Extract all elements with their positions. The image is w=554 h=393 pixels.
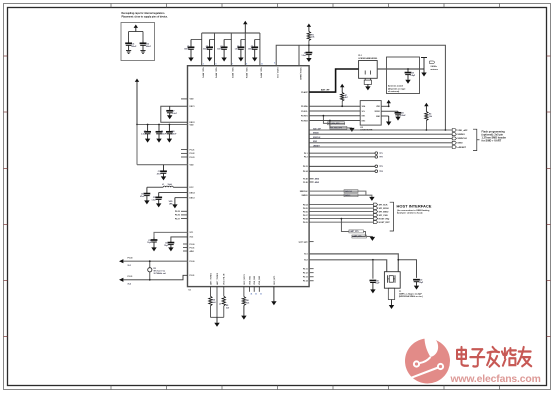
wire U3 GND (381, 115, 389, 117)
capacitor C5 (255, 39, 260, 41)
power arrow below C16 (153, 247, 155, 249)
wire UART RTS CTS (341, 219, 349, 232)
pin stubs XL (183, 243, 188, 245)
wire branch to IC pin (298, 45, 300, 65)
svg-text:VDD_NRF2: VDD_NRF2 (214, 68, 216, 79)
svg-text:100nF: 100nF (203, 49, 209, 51)
svg-text:TP3: TP3 (379, 166, 382, 168)
IC U3 body (360, 101, 381, 126)
svg-text:VDDIO: VDDIO (374, 111, 380, 113)
power arrow below C20 (416, 285, 418, 287)
power arrow NFC (216, 317, 218, 323)
svg-text:100nF: 100nF (217, 49, 223, 51)
svg-text:P0.07: P0.07 (303, 215, 308, 217)
capacitor C6 (308, 45, 310, 52)
svg-text:Antenna match: Antenna match (388, 85, 404, 88)
svg-text:P0.12: P0.12 (303, 272, 308, 274)
svg-text:P0.22: P0.22 (190, 153, 195, 155)
svg-text:100nF: 100nF (400, 115, 406, 117)
wire I2C label detour (323, 116, 345, 124)
net flag VDD_nRF (452, 129, 456, 132)
power VDD arrow top (243, 21, 247, 24)
svg-text:VDD_nRF: VDD_nRF (457, 130, 468, 132)
wire RF to antenna (377, 68, 424, 70)
power arrow below C3 (223, 57, 225, 59)
IC U1 nRF52832 body (188, 66, 310, 287)
svg-text:VDD_NRF3: VDD_NRF3 (231, 68, 233, 79)
capacitor C13 (163, 165, 165, 172)
capacitor C8 (147, 124, 149, 126)
svg-text:Placement: close to supply pin: Placement: close to supply pins of devic… (122, 15, 169, 18)
pin stubs AIN (309, 178, 314, 180)
net flag antenna (430, 61, 436, 64)
power arrow DEC6 (273, 287, 275, 302)
svg-text:SPI_CSN: SPI_CSN (379, 215, 388, 217)
svg-text:SPI_MOSI: SPI_MOSI (379, 208, 389, 210)
svg-text:XC2: XC2 (304, 260, 308, 262)
svg-text:INT1: INT1 (362, 116, 366, 118)
resistor R7 (340, 84, 344, 87)
wire DEC3 (175, 197, 188, 199)
frame zone ticks left (4, 55, 8, 57)
power arrow below R6 (243, 305, 245, 315)
svg-text:nRESET: nRESET (313, 145, 321, 147)
bracket flash programming (473, 129, 477, 150)
svg-text:P0.23: P0.23 (303, 166, 308, 168)
net flag HOST_IRQ (373, 217, 377, 220)
svg-text:P0.21: P0.21 (190, 149, 195, 151)
power arrow below C6 (308, 57, 310, 59)
svg-text:P0.11: P0.11 (303, 268, 308, 270)
capacitor C14 (146, 187, 148, 193)
svg-text:100nF: 100nF (131, 46, 137, 48)
power arrow below Y1 (391, 300, 393, 306)
svg-text:P0.26: P0.26 (175, 215, 180, 217)
svg-text:3n9: 3n9 (226, 308, 229, 310)
wire XC2 (171, 237, 188, 241)
inductor L1 L2 (163, 186, 173, 187)
wire XL2 (123, 275, 187, 280)
net flag XL2 (119, 278, 123, 282)
pin stubs P0.25-27 (181, 210, 188, 212)
svg-text:www.elecfans.com: www.elecfans.com (450, 374, 541, 385)
svg-text:100nF: 100nF (146, 46, 152, 48)
capacitor C20 xtal (413, 279, 420, 281)
pin stub VDD (181, 98, 188, 100)
svg-text:SWDIO: SWDIO (345, 195, 351, 197)
power VDD arrow above R1 (307, 24, 311, 27)
svg-text:antenna: antenna (431, 68, 439, 71)
svg-text:P0.SDA: P0.SDA (301, 105, 308, 108)
capacitor C16 (153, 237, 155, 240)
resistor R4 (209, 287, 211, 297)
power arrow below C21 (397, 116, 399, 118)
svg-text:SWDCLK: SWDCLK (457, 138, 467, 140)
svg-text:Analyzer similar to host): Analyzer similar to host) (397, 212, 423, 215)
svg-text:VDDH_MAIN: VDDH_MAIN (299, 68, 302, 80)
svg-text:P0.09: P0.09 (303, 222, 308, 224)
svg-text:ANT_TUNE1: ANT_TUNE1 (209, 272, 212, 285)
wire join rail (210, 316, 223, 318)
resistor R6 (243, 287, 245, 297)
svg-text:100nF: 100nF (161, 134, 167, 136)
svg-text:LFB182G45BG2D280: LFB182G45BG2D280 (358, 57, 377, 60)
antenna match box (387, 57, 420, 94)
svg-text:P0.INT2: P0.INT2 (301, 120, 308, 122)
svg-text:HOST_RST: HOST_RST (379, 222, 391, 224)
power arrow below C17 (170, 247, 172, 249)
power VDD arrow U3 (387, 100, 391, 103)
svg-text:9: 9 (246, 64, 247, 66)
wire top supply bus (202, 32, 260, 34)
svg-text:INT2: INT2 (362, 120, 366, 122)
resistor R5 (223, 287, 225, 297)
svg-text:AIN5: AIN5 (315, 181, 319, 184)
svg-text:P0.00: P0.00 (128, 257, 133, 259)
svg-text:VDD_PA_IN: VDD_PA_IN (223, 273, 226, 285)
svg-text:SWDCLK: SWDCLK (300, 191, 309, 193)
svg-text:31: 31 (251, 293, 253, 295)
svg-text:5: 5 (216, 64, 217, 66)
svg-text:DEC3: DEC3 (190, 197, 195, 199)
power arrow U3 GND (388, 116, 390, 122)
svg-text:P0.13: P0.13 (303, 277, 308, 279)
pin stubs P0.21-23 (181, 149, 188, 151)
pin stubs VSS bottom (249, 287, 251, 292)
svg-text:spare gpio: spare gpio (299, 241, 309, 243)
svg-text:P0.28: P0.28 (303, 179, 307, 181)
svg-text:P0.1: P0.1 (304, 153, 308, 155)
svg-text:VDD_NRF5: VDD_NRF5 (260, 68, 262, 79)
wire SWDIO labelled (309, 195, 372, 197)
component SJ1 jumper circle (149, 261, 151, 268)
capacitor C9 (158, 124, 160, 126)
svg-text:UART_RTS: UART_RTS (350, 230, 360, 233)
ground C12 (140, 50, 145, 52)
svg-text:DVDD_1V3: DVDD_1V3 (276, 68, 278, 79)
svg-text:(NX2520SA 32MHz or sim.): (NX2520SA 32MHz or sim.) (399, 295, 423, 298)
svg-text:DEC_NFC1: DEC_NFC1 (244, 273, 246, 284)
svg-text:XL2: XL2 (128, 283, 131, 285)
svg-text:10k: 10k (429, 116, 432, 118)
svg-text:SPI_SCK: SPI_SCK (379, 204, 388, 206)
svg-text:31: 31 (260, 293, 262, 295)
svg-text:UART_CTS: UART_CTS (353, 235, 363, 238)
svg-text:P0.27: P0.27 (175, 218, 180, 220)
svg-text:TP2: TP2 (379, 157, 382, 159)
svg-text:P0.04: P0.04 (303, 203, 308, 206)
svg-text:P0.2: P0.2 (304, 157, 308, 159)
svg-text:2.4GHz: 2.4GHz (431, 65, 437, 68)
power arrow below C19 (372, 289, 374, 291)
svg-text:P0.INT1: P0.INT1 (301, 116, 308, 118)
svg-text:XL1: XL1 (128, 265, 131, 267)
wire DEC4 (159, 192, 188, 194)
capacitor C19 xtal (372, 259, 374, 261)
node VDD rail (136, 124, 138, 126)
svg-text:I2C_SDA_NFC: I2C_SDA_NFC (331, 127, 343, 130)
wire to load cap right (398, 260, 416, 278)
svg-text:TP1: TP1 (379, 153, 382, 155)
svg-text:P0.01: P0.01 (128, 276, 133, 278)
crystal Y1 symbol (387, 275, 389, 283)
frame zone ticks right (547, 55, 551, 57)
capacitor C3 (224, 39, 231, 41)
capacitor C4 (241, 39, 245, 41)
pin stubs right bottom (309, 268, 314, 270)
svg-text:DCC: DCC (190, 187, 195, 189)
svg-text:31: 31 (255, 293, 257, 295)
net flag SPI_SCK (373, 203, 377, 206)
svg-text:3: 3 (203, 64, 204, 66)
power arrow below C1 (190, 57, 192, 59)
net flag nRESET (452, 146, 456, 149)
svg-text:(for connection to USB floatin: (for connection to USB floating (397, 209, 430, 212)
svg-text:P0.06: P0.06 (303, 211, 308, 213)
svg-text:P0.14: P0.14 (303, 280, 308, 283)
power arrow I2C (351, 127, 353, 129)
svg-text:100nF: 100nF (171, 134, 177, 136)
wire bus drops to IC top pins (201, 33, 203, 66)
svg-text:7: 7 (232, 64, 233, 66)
svg-text:P0.28: P0.28 (303, 182, 307, 184)
svg-text:10k: 10k (311, 37, 314, 39)
capacitor C21 (397, 111, 399, 113)
wire RF antenna trace (309, 69, 359, 92)
svg-text:VDD_nRF: VDD_nRF (313, 128, 321, 130)
resistor R3 pullup (424, 103, 428, 106)
svg-text:11: 11 (261, 64, 263, 66)
svg-text:DEC1: DEC1 (190, 106, 195, 108)
power arrow below C18 (407, 79, 409, 81)
svg-text:P0.08: P0.08 (303, 218, 308, 220)
svg-text:P0.00: P0.00 (190, 261, 195, 263)
svg-text:P0.ANT: P0.ANT (301, 91, 308, 94)
power arrow below C10 (168, 138, 170, 140)
power arrow UART (371, 235, 373, 238)
antenna symbol (421, 57, 427, 59)
svg-text:6: 6 (274, 63, 275, 65)
power arrow below C15 (158, 203, 160, 205)
wire XC2 32M (309, 260, 387, 272)
test points TP3 TP4 (309, 165, 375, 167)
svg-text:DEC_BT1: DEC_BT1 (274, 275, 276, 285)
svg-text:L1: L1 (162, 184, 164, 186)
svg-text:SCL: SCL (362, 111, 365, 113)
wire XC1 32M (309, 254, 398, 272)
capacitor C11 (128, 42, 130, 44)
svg-text:VDD: VDD (190, 165, 195, 167)
svg-text:VDD_NRF1: VDD_NRF1 (202, 68, 204, 79)
svg-text:nRESET: nRESET (457, 147, 466, 149)
svg-text:(Depends on type: (Depends on type (388, 87, 406, 90)
watermark chinese text (457, 347, 531, 367)
filter FL1 ground pins (364, 78, 366, 80)
svg-text:L3: L3 (219, 304, 221, 306)
svg-text:P0.05: P0.05 (303, 208, 308, 210)
crystal ground pad (388, 288, 394, 299)
wire rail down to pin (136, 125, 138, 165)
svg-text:P0.25: P0.25 (175, 211, 180, 213)
net flag HOST_RST (373, 221, 377, 224)
filter FL1 body (359, 61, 378, 79)
power arrow below C8 (147, 138, 149, 140)
svg-text:P0.23: P0.23 (190, 157, 195, 159)
svg-text:P0.01: P0.01 (190, 247, 195, 249)
wire XL1 (123, 260, 187, 262)
decoupling caps box (121, 23, 155, 61)
net flag SWO (452, 141, 456, 144)
wire ANT2 (216, 287, 218, 318)
filter FL1 pin marks (364, 71, 366, 75)
wire U3 VDD (381, 105, 389, 107)
svg-text:P0.00: P0.00 (190, 244, 195, 246)
capacitor C18 ant match (407, 68, 409, 70)
power arrow below C5 (254, 57, 256, 59)
svg-text:12k: 12k (246, 302, 249, 304)
wires host interface (309, 204, 373, 206)
svg-text:XC1: XC1 (304, 254, 308, 256)
node VDD right (445, 129, 447, 131)
svg-text:SWDIO: SWDIO (457, 134, 465, 136)
resistor R1 (307, 32, 310, 41)
power arrow below FL1 (367, 84, 369, 86)
svg-text:4k7: 4k7 (345, 96, 348, 99)
svg-text:VDD: VDD (190, 99, 195, 101)
power arrow below C9 (158, 138, 160, 140)
svg-text:HOST_IRQ: HOST_IRQ (379, 218, 390, 220)
svg-text:100nF: 100nF (184, 49, 190, 51)
capacitor C17 (170, 240, 172, 242)
svg-text:SWO: SWO (457, 143, 463, 145)
power arrow below C14 (146, 200, 148, 202)
power VDD arrow left rail (135, 79, 139, 82)
wires U3 I2C (309, 105, 360, 107)
capacitor C7 (169, 106, 171, 111)
power arrow below C2 (209, 57, 211, 59)
svg-text:VDD: VDD (190, 124, 195, 126)
crystal Y1 body (384, 272, 400, 289)
capacitor C1 (191, 39, 202, 41)
wire DEC loop (161, 106, 188, 122)
power arrow SWD (371, 196, 373, 198)
svg-text:SWDCLK: SWDCLK (313, 137, 321, 139)
svg-text:SWDIO: SWDIO (313, 133, 319, 135)
node junction R1 top (308, 44, 310, 46)
svg-text:P0.24: P0.24 (303, 170, 308, 173)
capacitor C12 (142, 42, 144, 44)
net flag SWDIO (452, 133, 456, 136)
wire VDD net across top (276, 45, 445, 130)
svg-text:XC2: XC2 (190, 237, 194, 239)
svg-text:P0.01: P0.01 (190, 275, 195, 277)
net flag SPI_MOSI (373, 207, 377, 210)
svg-text:10uH: 10uH (168, 184, 173, 186)
svg-text:32.768kHz xtal: 32.768kHz xtal (154, 272, 167, 275)
svg-text:VSS_PA2: VSS_PA2 (253, 275, 256, 285)
capacitor C2 (210, 39, 215, 41)
svg-text:XC1: XC1 (190, 232, 194, 234)
test points TP1 TP2 (309, 152, 375, 154)
capacitor C10 (169, 124, 171, 126)
wire in box (129, 31, 143, 33)
wire XC1 (154, 232, 188, 237)
power arrow below C7 (169, 115, 171, 117)
power arrow DEC3 (174, 198, 176, 205)
ground C11 (126, 50, 131, 52)
net flag XL1 (119, 259, 123, 263)
wire VDD rail to IC (137, 124, 188, 126)
pin stub spare (309, 241, 314, 243)
frame zone ticks top (110, 4, 112, 8)
svg-text:SWDCLK: SWDCLK (345, 191, 353, 193)
frame zone ticks bottom (110, 386, 112, 390)
svg-text:3n9: 3n9 (212, 302, 215, 304)
svg-text:of antenna): of antenna) (388, 90, 400, 93)
wire SWDCLK labelled (309, 191, 366, 195)
svg-text:VSS_PA1: VSS_PA1 (248, 275, 251, 285)
svg-text:Decoupling caps for internal r: Decoupling caps for internal regulators. (122, 12, 166, 15)
svg-text:P0.SCL: P0.SCL (301, 111, 308, 113)
wire U3 VDDIO (381, 110, 398, 112)
net flag SPI_MISO (373, 210, 377, 213)
svg-text:HOST INTERFACE: HOST INTERFACE (397, 204, 432, 209)
svg-text:SWO: SWO (313, 141, 318, 143)
power arrow below C13 (163, 176, 165, 178)
svg-text:for SWD + UART: for SWD + UART (482, 140, 502, 143)
wires SWD flash programming (309, 129, 452, 131)
svg-text:100nF: 100nF (248, 49, 254, 51)
net flag SWDCLK (452, 137, 456, 140)
svg-text:SWDIO: SWDIO (302, 195, 309, 197)
svg-text:SPI_MISO: SPI_MISO (379, 211, 389, 213)
power arrow below C4 (240, 57, 242, 59)
svg-text:TP4: TP4 (379, 170, 382, 173)
svg-text:VSS_PA3: VSS_PA3 (258, 275, 261, 285)
capacitor C15 (158, 193, 160, 198)
svg-text:ANT_RF: ANT_RF (321, 88, 330, 91)
svg-text:AIN1: AIN1 (190, 250, 194, 253)
wire DCC with inductors (147, 186, 163, 188)
net flag SPI_CSN (373, 214, 377, 217)
svg-text:ANT_TUNE2: ANT_TUNE2 (216, 272, 219, 285)
svg-text:FL1: FL1 (358, 55, 361, 57)
watermark logo circle (405, 339, 450, 384)
power VDD arrow in box (134, 25, 138, 28)
bracket host interface (390, 202, 394, 231)
svg-text:VDD_NRF4: VDD_NRF4 (245, 68, 248, 79)
